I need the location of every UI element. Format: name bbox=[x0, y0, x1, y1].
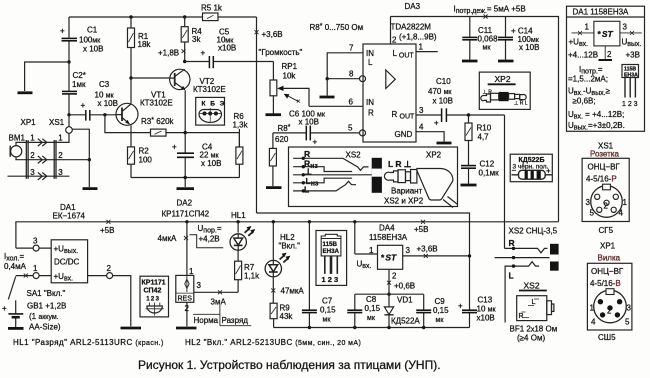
svg-text:ВМ1: ВМ1 bbox=[9, 134, 26, 143]
svg-text:R: R bbox=[519, 313, 524, 320]
svg-text:2: 2 bbox=[392, 272, 397, 281]
svg-text:СШ5: СШ5 bbox=[598, 333, 616, 342]
capacitor C4 bbox=[172, 143, 221, 188]
svg-text:123: 123 bbox=[146, 297, 160, 303]
svg-text:Вариант: Вариант bbox=[391, 187, 423, 196]
svg-text:Норма: Норма bbox=[194, 316, 219, 325]
svg-text:3: 3 bbox=[586, 198, 591, 207]
pin 3 DA3 / capacitor C10 bbox=[416, 77, 505, 128]
node C1/C2 junction bbox=[67, 60, 70, 63]
label HL2 bottom bbox=[185, 338, 361, 347]
resistor R3 feedback bbox=[103, 113, 185, 136]
variant jack plug body (black) bbox=[372, 158, 382, 193]
svg-text:C10: C10 bbox=[436, 77, 451, 86]
svg-text:XS2: XS2 bbox=[346, 151, 362, 160]
svg-text:(1 аккум.: (1 аккум. bbox=[29, 312, 59, 321]
svg-text:5: 5 bbox=[348, 124, 353, 133]
svg-text:1 2 3: 1 2 3 bbox=[322, 275, 339, 284]
svg-text:100: 100 bbox=[139, 156, 153, 165]
svg-text:+: + bbox=[201, 49, 206, 58]
ground (C11) bbox=[462, 60, 478, 63]
svg-text:КР1171СП42: КР1171СП42 bbox=[162, 210, 210, 219]
svg-text:0,15: 0,15 bbox=[320, 306, 336, 315]
svg-text:BF1 2x18 Ом: BF1 2x18 Ом bbox=[510, 325, 558, 334]
capacitor C11 bbox=[462, 17, 498, 60]
svg-text:TDA2822M: TDA2822M bbox=[391, 23, 432, 32]
svg-text:XS1: XS1 bbox=[49, 118, 65, 127]
svg-text:+: + bbox=[546, 167, 551, 176]
svg-text:+: + bbox=[434, 119, 439, 128]
wire: row 3 bbox=[8, 175, 70, 177]
svg-text:+1,8В: +1,8В bbox=[158, 49, 179, 58]
svg-text:115В: 115В bbox=[323, 241, 338, 248]
svg-text:DA4: DA4 bbox=[379, 224, 395, 233]
svg-text:+: + bbox=[60, 27, 65, 36]
node +3.6V marker bbox=[255, 30, 283, 39]
ground (pin 4) bbox=[437, 142, 452, 145]
svg-text:HL1 "Разряд" ARL2-5113UR: HL1 "Разряд" ARL2-5113URC (красн.) bbox=[13, 338, 164, 347]
regulator DA4 1158EN3A bbox=[353, 220, 410, 280]
svg-text:C8: C8 bbox=[366, 295, 377, 304]
wire wiper to pin 6 bbox=[309, 105, 363, 107]
connector XS2 L contact bbox=[505, 262, 539, 323]
pin 2 DA3 bbox=[391, 17, 398, 45]
node +5V marker DA4 bbox=[414, 220, 428, 234]
svg-text:1: 1 bbox=[585, 23, 590, 32]
label 47uA bbox=[271, 287, 304, 296]
node C2/C3 junction bbox=[67, 113, 70, 116]
svg-text:L: L bbox=[509, 271, 514, 281]
pin 8 DA3 bbox=[326, 70, 366, 96]
svg-text:L: L bbox=[368, 58, 373, 67]
capacitor C6 bbox=[273, 110, 359, 147]
svg-text:"Громкость": "Громкость" bbox=[259, 48, 303, 57]
wire +5V distribution rail bbox=[16, 222, 559, 248]
svg-text:0,068: 0,068 bbox=[478, 35, 499, 44]
potentiometer RP1 bbox=[270, 62, 298, 114]
svg-text:470 мк: 470 мк bbox=[428, 87, 452, 96]
svg-text:СП42: СП42 bbox=[144, 287, 162, 294]
svg-text:XP2: XP2 bbox=[426, 151, 442, 160]
capacitor C3 bbox=[69, 80, 118, 121]
label Ihol bbox=[4, 252, 27, 271]
svg-text:XP2: XP2 bbox=[495, 74, 511, 84]
label BF1 bbox=[510, 325, 558, 343]
svg-text:*ST: *ST bbox=[381, 253, 397, 263]
svg-text:GND: GND bbox=[395, 130, 413, 139]
svg-text:R10: R10 bbox=[477, 124, 492, 133]
capacitor C8 bbox=[347, 294, 380, 327]
label 4uA bbox=[158, 234, 189, 243]
capacitor C13 bbox=[458, 296, 496, 323]
capacitor C7 bbox=[302, 220, 336, 327]
resistor R1 bbox=[128, 15, 152, 78]
svg-text:x 10В: x 10В bbox=[433, 97, 453, 106]
svg-text:1: 1 bbox=[58, 134, 63, 143]
svg-text:x10В: x10В bbox=[218, 44, 236, 53]
label Громкость bbox=[259, 48, 303, 57]
wire R7 to DA2 pin3 bbox=[237, 291, 239, 293]
svg-text:x10В: x10В bbox=[477, 314, 495, 323]
svg-text:ЕН3А: ЕН3А bbox=[323, 248, 340, 255]
logic levels Norma/Razryad bbox=[193, 305, 251, 326]
svg-text:43k: 43k bbox=[280, 312, 294, 321]
svg-text:GB1 +1,2В: GB1 +1,2В bbox=[27, 302, 66, 311]
wire VT2 emitter line bbox=[184, 90, 187, 153]
pin 6 DA3 bbox=[349, 98, 354, 107]
svg-text:3: 3 bbox=[58, 168, 63, 177]
pin 7 DA3 bbox=[327, 44, 363, 79]
svg-text:СГ5: СГ5 bbox=[599, 226, 614, 235]
svg-text:XS2 и ХР2: XS2 и ХР2 bbox=[384, 197, 424, 206]
svg-text:DA2: DA2 bbox=[177, 199, 193, 208]
variant box XS2/XP2 bbox=[289, 147, 458, 207]
capacitor C14 bbox=[498, 17, 540, 60]
svg-text:5: 5 bbox=[625, 318, 630, 327]
variant contact Lnc bbox=[293, 176, 352, 188]
svg-text:R: R bbox=[368, 109, 374, 118]
svg-text:HL2 "Вкл." ARL2-5213UBC (5: HL2 "Вкл." ARL2-5213UBC (5мм, син., 20 м… bbox=[185, 338, 361, 347]
capacitor C9 bbox=[416, 294, 449, 327]
svg-text:4-5/16-Р: 4-5/16-Р bbox=[586, 175, 617, 184]
svg-text:1158ЕН3А: 1158ЕН3А bbox=[369, 233, 408, 242]
svg-text:+3,6В: +3,6В bbox=[262, 30, 283, 39]
svg-text:C7: C7 bbox=[322, 297, 333, 306]
connector XS2 sleeve contact bbox=[495, 256, 550, 259]
svg-text:*ST: *ST bbox=[598, 29, 614, 39]
label Upor bbox=[190, 224, 224, 248]
wire: XS1 NC contact to ground bbox=[72, 129, 91, 187]
variant contact Rnc bbox=[293, 159, 352, 172]
resistor R7 bbox=[235, 250, 261, 292]
svg-text:0,15: 0,15 bbox=[365, 304, 381, 313]
svg-text:+5В: +5В bbox=[414, 225, 428, 234]
svg-text:⊥ R L: ⊥ R L bbox=[514, 101, 528, 107]
svg-text:−: − bbox=[512, 166, 517, 175]
svg-text:"Вкл.": "Вкл." bbox=[279, 242, 301, 251]
svg-text:0,4мА: 0,4мА bbox=[4, 262, 27, 271]
headphones BF1 box bbox=[517, 296, 554, 321]
svg-text:ОНЦ−ВГ: ОНЦ−ВГ bbox=[588, 163, 621, 172]
pin 1 DA3 stub bbox=[416, 43, 438, 52]
supervisor DA2 KR1171SP42 bbox=[162, 199, 210, 303]
capacitor C1 bbox=[60, 17, 103, 62]
svg-text:2: 2 bbox=[107, 264, 112, 273]
svg-text:1,3k: 1,3k bbox=[233, 121, 249, 130]
jack plug inserted (black) bbox=[550, 244, 559, 271]
caption bbox=[138, 358, 441, 372]
svg-text:C1: C1 bbox=[87, 26, 98, 35]
pin 5 DA3 bbox=[348, 124, 366, 136]
svg-text:1мк: 1мк bbox=[72, 80, 86, 89]
wire +3.6V feed line bbox=[257, 213, 470, 328]
svg-text:мк: мк bbox=[367, 315, 376, 322]
adjustment arrow bbox=[284, 94, 300, 103]
svg-text:100мк: 100мк bbox=[79, 36, 101, 45]
wire VT2 emitter to R6 top bbox=[185, 133, 239, 147]
node VT2 collector / C5 bbox=[183, 60, 186, 63]
svg-text:DA1 1158ЕН3А: DA1 1158ЕН3А bbox=[573, 8, 630, 17]
svg-text:5: 5 bbox=[590, 209, 595, 218]
svg-text:2: 2 bbox=[58, 151, 63, 160]
cable arrows row3 bbox=[38, 173, 47, 180]
LED HL1 bbox=[230, 211, 255, 250]
cable arrows row1 bbox=[38, 139, 47, 146]
wire +3.6V vertical feed bbox=[256, 17, 258, 213]
svg-text:4мкА: 4мкА bbox=[158, 234, 177, 243]
svg-text:R5 1k: R5 1k bbox=[201, 4, 223, 13]
svg-text:КР1171: КР1171 bbox=[142, 280, 166, 287]
svg-text:IN: IN bbox=[366, 49, 374, 58]
svg-text:R3* 620k: R3* 620k bbox=[141, 117, 175, 126]
svg-text:3: 3 bbox=[406, 246, 411, 255]
svg-text:3: 3 bbox=[623, 23, 628, 32]
pin 1 DA1 bbox=[16, 264, 51, 279]
svg-text:1: 1 bbox=[590, 304, 595, 313]
svg-text:ОНЦ−ВГ: ОНЦ−ВГ bbox=[591, 267, 624, 276]
wire: mic row 1 bbox=[16, 133, 69, 145]
ground (C14) bbox=[498, 60, 514, 63]
ground (C4) bbox=[177, 187, 195, 190]
svg-text:RP1: RP1 bbox=[282, 62, 298, 71]
svg-text:2: 2 bbox=[604, 202, 609, 211]
svg-text:КД522А: КД522А bbox=[391, 317, 420, 326]
resistor R9 bbox=[270, 277, 293, 327]
svg-text:x 10В: x 10В bbox=[299, 118, 319, 127]
svg-text:3 чёрн. пол.: 3 чёрн. пол. bbox=[513, 164, 549, 171]
svg-text:0,15: 0,15 bbox=[433, 306, 449, 315]
svg-text:3мА: 3мА bbox=[211, 298, 227, 307]
package box KR1171SP42 bbox=[140, 276, 169, 317]
ground (RP1) bbox=[266, 113, 282, 116]
svg-text:XP1: XP1 bbox=[21, 118, 37, 127]
label HL1 bottom bbox=[13, 338, 164, 347]
svg-text:+4...12В: +4...12В bbox=[568, 51, 598, 60]
label R8* range bbox=[310, 23, 364, 32]
svg-text:620: 620 bbox=[275, 135, 289, 144]
LED HL2 bbox=[265, 220, 300, 277]
resistor R4 bbox=[181, 15, 202, 61]
connector XS1 break contact circle bbox=[66, 115, 73, 134]
svg-text:C13: C13 bbox=[478, 296, 493, 305]
svg-text:x 10В: x 10В bbox=[519, 43, 539, 52]
pin 2 DA4 wire bbox=[387, 269, 415, 296]
svg-text:L R ⊥: L R ⊥ bbox=[388, 159, 412, 169]
svg-text:IN: IN bbox=[366, 98, 374, 107]
pinout box KBE (КБЭ) bbox=[196, 97, 226, 125]
wire to input ground bbox=[25, 62, 69, 91]
svg-text:1: 1 bbox=[189, 267, 194, 276]
wire +5V top rail bbox=[391, 17, 559, 222]
svg-text:+3В: +3В bbox=[626, 51, 640, 60]
resistor R2 bbox=[128, 125, 153, 177]
variant contact R bbox=[293, 149, 368, 170]
variant contact L bbox=[293, 181, 356, 194]
ground (DA2 pin2) bbox=[176, 327, 197, 330]
svg-text:2: 2 bbox=[30, 151, 35, 160]
svg-text:18k: 18k bbox=[138, 40, 152, 49]
svg-text:1: 1 bbox=[30, 134, 35, 143]
svg-text:+: + bbox=[313, 138, 318, 147]
transistor VT1 bbox=[116, 91, 173, 126]
svg-text:Разряд: Разряд bbox=[222, 316, 249, 325]
pin 3 DA1 bbox=[16, 237, 51, 252]
svg-text:C9: C9 bbox=[435, 297, 446, 306]
svg-text:+5В: +5В bbox=[100, 226, 114, 235]
svg-text:1: 1 bbox=[623, 198, 628, 207]
op-amp U DA3 TDA2822M box bbox=[363, 2, 437, 142]
resistor R8 bbox=[269, 124, 290, 186]
svg-text:1: 1 bbox=[369, 246, 374, 255]
pin 2 DA1 bbox=[88, 264, 131, 326]
svg-text:3k: 3k bbox=[192, 35, 201, 44]
ground (C12) bbox=[461, 184, 477, 187]
svg-text:6: 6 bbox=[349, 98, 354, 107]
svg-text:C3: C3 bbox=[99, 80, 110, 89]
svg-text:C2*: C2* bbox=[73, 71, 86, 80]
svg-text:ЕК−1674: ЕК−1674 bbox=[53, 212, 86, 221]
svg-text:4: 4 bbox=[591, 318, 596, 327]
svg-text:КТ3102Е: КТ3102Е bbox=[193, 85, 226, 94]
svg-text:1: 1 bbox=[419, 43, 424, 52]
svg-text:R: R bbox=[509, 238, 515, 248]
pin 3 DA2 bbox=[194, 281, 238, 307]
svg-text:SA1 "Вкл.": SA1 "Вкл." bbox=[27, 289, 66, 298]
ground (pins 7,8) bbox=[320, 96, 335, 99]
svg-text:R2: R2 bbox=[139, 147, 150, 156]
svg-text:≥0,6В;: ≥0,6В; bbox=[573, 97, 596, 106]
capacitor C2 bbox=[62, 62, 86, 115]
svg-text:x 10В: x 10В bbox=[201, 159, 221, 168]
svg-text:Рисунок 1. Устройство наблюде: Рисунок 1. Устройство наблюдения за птиц… bbox=[138, 358, 441, 372]
svg-text:1 2 3: 1 2 3 bbox=[622, 101, 638, 108]
wire: mic row 2 bbox=[16, 157, 89, 160]
svg-text:(≥4 Ом): (≥4 Ом) bbox=[517, 334, 545, 343]
svg-text:C12: C12 bbox=[480, 160, 495, 169]
svg-text:4: 4 bbox=[419, 123, 424, 132]
svg-text:1,1k: 1,1k bbox=[244, 272, 260, 281]
pin 2 DA2 bbox=[185, 302, 190, 326]
node R10 tap bbox=[467, 113, 470, 116]
resistor R5 bbox=[201, 4, 223, 21]
capacitor C5 bbox=[185, 28, 274, 69]
plug XP2 info box bbox=[479, 72, 530, 109]
package box 115V EN3A bbox=[316, 231, 347, 286]
svg-text:2: 2 bbox=[607, 307, 612, 316]
svg-text:4,7: 4,7 bbox=[478, 133, 490, 142]
svg-text:DC/DC: DC/DC bbox=[54, 258, 80, 267]
svg-text:3: 3 bbox=[197, 281, 202, 290]
svg-text:2: 2 bbox=[185, 304, 190, 313]
resistor R10 bbox=[465, 115, 492, 166]
svg-text:RES: RES bbox=[178, 296, 193, 303]
svg-text:DA3: DA3 bbox=[405, 2, 421, 11]
svg-text:КТ3102Е: КТ3102Е bbox=[140, 99, 173, 108]
pin 3 DA4 wire bbox=[403, 245, 471, 258]
resistor R6 bbox=[233, 112, 249, 178]
svg-text:мк: мк bbox=[483, 45, 492, 52]
svg-text:+3,6В: +3,6В bbox=[417, 245, 438, 254]
svg-text:R: R bbox=[304, 149, 310, 159]
battery GB1 bbox=[2, 300, 66, 331]
svg-text:10 мк: 10 мк bbox=[477, 305, 497, 314]
svg-text:К Б Э: К Б Э bbox=[202, 101, 226, 108]
svg-text:HL1: HL1 bbox=[231, 211, 246, 220]
converter DA1 EK-1674 bbox=[51, 203, 87, 283]
wiper of RP1 bbox=[277, 86, 309, 107]
svg-text:+: + bbox=[81, 101, 86, 110]
svg-text:4: 4 bbox=[619, 209, 624, 218]
svg-text:3: 3 bbox=[419, 106, 424, 115]
switch SA1 bbox=[8, 277, 65, 300]
connector XS2 socket label bbox=[519, 281, 547, 291]
variant contact sleeve bbox=[293, 167, 374, 177]
svg-text:ХР1: ХР1 bbox=[600, 242, 616, 251]
label +1,8V bbox=[158, 49, 186, 58]
wire pin2 bus bbox=[355, 293, 424, 295]
connector XS2 label bbox=[509, 227, 558, 236]
svg-text:=1,5...2мА;: =1,5...2мА; bbox=[568, 75, 608, 84]
svg-text:L: L bbox=[532, 299, 536, 306]
svg-text:3: 3 bbox=[30, 168, 35, 177]
svg-text:4-5/16-В: 4-5/16-В bbox=[590, 279, 621, 288]
node VT1 collector / VT2 base bbox=[129, 76, 170, 103]
svg-text:3: 3 bbox=[627, 304, 632, 313]
ground (XS1 pin2) bbox=[83, 187, 98, 190]
diode KD522B info box bbox=[510, 154, 552, 182]
svg-text:+: + bbox=[458, 302, 463, 311]
variant XP2 plug drawing bbox=[384, 159, 457, 208]
svg-text:(+1,8...9В): (+1,8...9В) bbox=[399, 33, 437, 42]
cable arrows row2 bbox=[38, 156, 47, 163]
ground (input) bbox=[18, 91, 33, 94]
svg-text:2: 2 bbox=[392, 36, 397, 45]
node supply current marker bbox=[454, 5, 526, 19]
ground (R8) bbox=[266, 186, 282, 189]
svg-text:XS2 СНЦ-3,5: XS2 СНЦ-3,5 bbox=[509, 227, 558, 236]
connector XS2 R contact bbox=[505, 238, 548, 253]
svg-text:AA-Size): AA-Size) bbox=[29, 323, 61, 332]
svg-text:L: L bbox=[304, 185, 309, 195]
info box DA1 1158EN3A bbox=[567, 6, 645, 131]
ground (DA1 pin2) bbox=[121, 327, 142, 330]
diode VD1 bbox=[384, 294, 420, 327]
pin 4 DA3 bbox=[416, 123, 444, 142]
connector XS1 DIN socket info bbox=[582, 142, 629, 236]
svg-text:+: + bbox=[2, 304, 7, 313]
svg-text:мк: мк bbox=[323, 317, 332, 324]
svg-text:x 10В: x 10В bbox=[98, 99, 118, 108]
svg-text:Розетка: Розетка bbox=[590, 150, 619, 159]
node +5V marker left bbox=[100, 220, 114, 235]
transistor VT2 bbox=[170, 69, 226, 94]
svg-text:Вилка: Вилка bbox=[598, 254, 621, 263]
wire: top +3.6V rail left segment bbox=[69, 16, 257, 18]
connector XP1 DIN plug info bbox=[587, 242, 632, 343]
svg-text:XS2: XS2 bbox=[524, 281, 540, 291]
svg-text:мк: мк bbox=[436, 317, 445, 324]
capacitor C12 bbox=[461, 160, 499, 184]
microphone BM1 bbox=[9, 134, 26, 157]
amp triangle DA3 bbox=[386, 70, 396, 89]
svg-text:3: 3 bbox=[33, 237, 38, 246]
wire ground rail bottom bbox=[274, 326, 470, 329]
wire R channel down bbox=[504, 115, 506, 248]
wire emitter bus bbox=[131, 176, 239, 179]
svg-text:+0,6В: +0,6В bbox=[394, 282, 415, 291]
svg-text:VD1: VD1 bbox=[397, 296, 413, 305]
ground (battery) bbox=[8, 327, 24, 330]
